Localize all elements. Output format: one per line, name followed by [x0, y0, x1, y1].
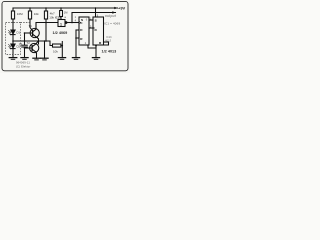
- wire FF1 D pin: [76, 29, 79, 31]
- transistor T2: [30, 43, 39, 52]
- wire FF2 S pin from bus: [95, 8, 97, 17]
- wire FF2 bottom to ground: [95, 45, 97, 58]
- IC2a flip-flop box: [79, 17, 89, 45]
- transistor T1: [30, 28, 39, 37]
- svg-text:10M: 10M: [17, 12, 23, 16]
- svg-text:T1: T1: [29, 24, 33, 28]
- svg-text:10k: 10k: [53, 49, 58, 53]
- labels: [17, 10, 68, 53]
- diode D1: [11, 30, 15, 34]
- wire collector line: [36, 23, 58, 29]
- svg-text:D1: D1: [17, 30, 21, 34]
- svg-text:1/2 4069: 1/2 4069: [53, 31, 68, 35]
- bottom id text: [16, 61, 31, 69]
- resistor R4 (bias, to gate input): [60, 8, 62, 11]
- ground T2 emitter: [33, 57, 40, 59]
- resistor R5 (horizontal): [53, 44, 61, 47]
- svg-text:(C) Elektor: (C) Elektor: [16, 64, 31, 68]
- dashed sensor box: [6, 23, 21, 55]
- ground node B: [41, 57, 48, 59]
- svg-text:S: S: [95, 19, 97, 23]
- arrow +9V: [114, 7, 117, 10]
- dashed top extension: [21, 22, 31, 24]
- wire FF1 Q to FF2: [89, 19, 93, 21]
- wire FF2 Q output stub: [104, 41, 109, 43]
- svg-text:10k: 10k: [49, 15, 54, 19]
- wire FF1 R pin: [76, 37, 79, 39]
- wire FF1 pins to ground: [75, 30, 77, 58]
- svg-text:+9V: +9V: [118, 5, 126, 10]
- wire output line: [72, 13, 116, 23]
- wire FF1 bottom jog: [88, 45, 96, 48]
- capacitor C1: [24, 33, 26, 45]
- svg-text:964069-11: 964069-11: [16, 61, 30, 65]
- clock wedge FF2: [93, 27, 95, 30]
- resistor R2: [29, 8, 31, 11]
- svg-text:output: output: [105, 14, 117, 18]
- clock wedge FF1: [79, 21, 81, 24]
- resistor R1: [12, 8, 14, 11]
- wire T2 collector: [38, 41, 40, 44]
- diode D1 light arrows: [8, 30, 10, 34]
- svg-text:1/2 4013: 1/2 4013: [102, 50, 117, 54]
- gate IC1a box: [58, 20, 65, 27]
- svg-text:IC1 = 4069: IC1 = 4069: [104, 21, 120, 25]
- svg-text:1M: 1M: [64, 10, 68, 14]
- svg-text:C1: C1: [19, 42, 23, 46]
- wire R5 to ground: [61, 42, 63, 58]
- arrow output: [112, 11, 115, 14]
- border frame: [2, 1, 128, 70]
- resistor R3: [45, 8, 47, 11]
- junction dots: [12, 7, 97, 49]
- diode D2: [11, 44, 15, 48]
- IC2b flip-flop box: [93, 17, 104, 45]
- ground C1: [21, 57, 28, 59]
- svg-text:IC1a: IC1a: [55, 16, 61, 20]
- svg-text:T2: T2: [27, 41, 31, 45]
- wire gate output: [65, 22, 79, 24]
- FF pin numbers: [75, 13, 99, 45]
- ground ticks: [11, 58, 15, 60]
- wire node to ground B: [44, 41, 46, 58]
- ground FF2: [92, 57, 99, 59]
- FF1 pin letters: [80, 18, 102, 45]
- ground sensor: [9, 57, 17, 59]
- wire node line y41: [13, 41, 53, 46]
- wire top supply bus: [13, 7, 118, 9]
- svg-text:10k: 10k: [34, 12, 39, 16]
- wire sensor bottom: [12, 49, 14, 58]
- wire sensor mid: [12, 35, 14, 44]
- diode D2 light arrows: [8, 44, 10, 48]
- svg-text:4013: 4013: [105, 39, 112, 43]
- ground FF1: [72, 57, 79, 59]
- ground R5: [58, 57, 65, 59]
